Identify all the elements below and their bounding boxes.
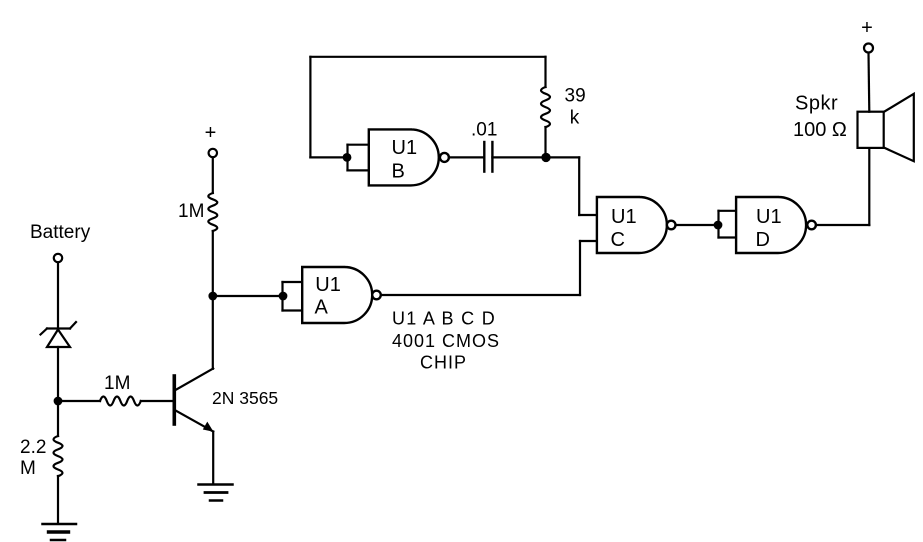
value 39 k bbox=[565, 86, 586, 129]
wire R3 to collector of Q1 bbox=[212, 231, 214, 369]
wire node A to resistor R2 bbox=[58, 400, 100, 402]
ground GND2 bbox=[199, 485, 233, 501]
wire terminal to resistor R3 bbox=[212, 157, 214, 193]
zener diode D1 bbox=[41, 322, 77, 347]
gate D input tie bracket bbox=[719, 211, 737, 238]
wire node X to gate C input bbox=[546, 157, 597, 215]
svg-text:1M: 1M bbox=[104, 373, 130, 394]
resistor R2 1M bbox=[100, 397, 141, 406]
svg-text:U1 A B C D: U1 A B C D bbox=[392, 309, 496, 329]
svg-text:2.2: 2.2 bbox=[20, 437, 46, 458]
value 2.2M bbox=[20, 437, 46, 479]
node A junction bbox=[54, 397, 63, 406]
svg-text:39: 39 bbox=[565, 86, 586, 107]
label U1 B bbox=[392, 137, 418, 183]
wire R4 to node X bbox=[544, 127, 546, 157]
speaker LS1 bbox=[858, 94, 914, 161]
resistor R1 2.2M bbox=[54, 436, 63, 476]
svg-text:Spkr: Spkr bbox=[795, 93, 838, 115]
capacitor C1 .01 bbox=[484, 142, 492, 172]
svg-text:U1: U1 bbox=[611, 206, 637, 228]
resistor R4 39k bbox=[541, 87, 550, 127]
svg-text:CHIP: CHIP bbox=[420, 353, 467, 373]
transistor Q1 2N3565 bbox=[174, 369, 213, 432]
label U1 A bbox=[315, 274, 341, 319]
node gate B input junction bbox=[343, 153, 352, 162]
wire gate B output to capacitor C1 bbox=[449, 156, 484, 158]
wire node B to gate A input bbox=[213, 295, 283, 297]
svg-text:M: M bbox=[20, 458, 36, 479]
wire feedback to resistor R4 bbox=[544, 57, 546, 87]
svg-text:D: D bbox=[756, 229, 770, 251]
svg-text:U1: U1 bbox=[756, 206, 782, 228]
svg-text:B: B bbox=[392, 161, 405, 183]
svg-text:U1: U1 bbox=[315, 274, 341, 296]
NOR gate U1 A bbox=[302, 267, 381, 323]
svg-text:k: k bbox=[570, 108, 580, 129]
wire capacitor C1 to node X bbox=[492, 156, 546, 158]
label U1 C bbox=[611, 206, 637, 251]
svg-text:C: C bbox=[611, 229, 625, 251]
wire gate A output to gate C input bbox=[381, 241, 597, 295]
node gate A input junction bbox=[279, 292, 288, 301]
NOR gate U1 D bbox=[736, 197, 816, 253]
svg-text:+: + bbox=[205, 122, 217, 144]
wire zener anode to node A bbox=[57, 347, 59, 401]
svg-text:U1: U1 bbox=[392, 137, 418, 159]
svg-text:Battery: Battery bbox=[30, 222, 91, 243]
NOR gate U1 B bbox=[369, 129, 449, 185]
node X junction bbox=[541, 153, 550, 162]
wire gate C output to gate D input bbox=[676, 224, 719, 226]
wire battery terminal to zener cathode bbox=[57, 263, 59, 329]
ground GND1 bbox=[43, 524, 77, 540]
wire speaker to supply terminal bbox=[867, 53, 870, 112]
wire R1 to ground bbox=[57, 476, 59, 524]
supply terminal right bbox=[864, 44, 873, 53]
gate A input tie bracket bbox=[283, 282, 303, 311]
svg-text:4001 CMOS: 4001 CMOS bbox=[392, 331, 500, 351]
label U1 D bbox=[756, 206, 782, 251]
gate B input tie bracket bbox=[348, 145, 369, 171]
svg-text:2N 3565: 2N 3565 bbox=[212, 388, 278, 408]
supply terminal left bbox=[209, 149, 217, 157]
resistor R3 1M bbox=[208, 193, 217, 231]
wire R2 to base of Q1 bbox=[141, 400, 173, 402]
svg-text:A: A bbox=[315, 297, 329, 319]
svg-text:1M: 1M bbox=[178, 201, 204, 222]
wire emitter to ground bbox=[212, 432, 214, 485]
wire node A to resistor R1 bbox=[57, 401, 59, 436]
NOR gate U1 C bbox=[597, 197, 676, 253]
node gate D input junction bbox=[714, 221, 723, 230]
svg-text:.01: .01 bbox=[471, 120, 497, 141]
svg-text:+: + bbox=[861, 17, 873, 39]
svg-text:100 Ω: 100 Ω bbox=[793, 119, 847, 141]
node B junction collector bbox=[208, 292, 217, 301]
battery terminal BT1 bbox=[54, 254, 62, 262]
feedback wire top bbox=[310, 57, 545, 158]
wire gate D output to speaker bbox=[816, 148, 869, 225]
